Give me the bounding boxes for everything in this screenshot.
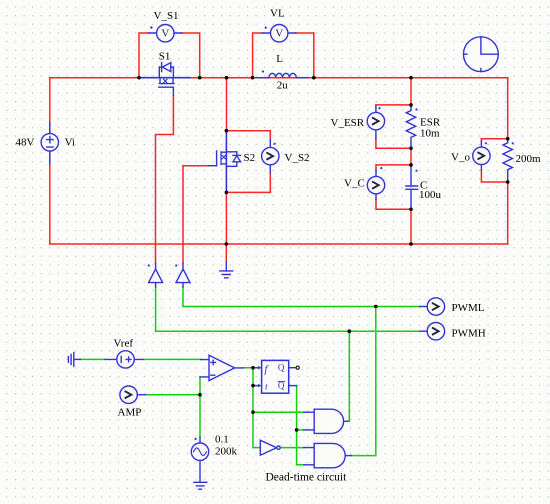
wire Vref to op-amp xyxy=(143,358,201,360)
sine source carrier xyxy=(191,437,208,482)
source Vref xyxy=(105,351,143,368)
svg-text:PWML: PWML xyxy=(452,302,485,314)
wire AND1 output up xyxy=(348,331,350,421)
ground left of Vref xyxy=(68,353,80,367)
voltmeter VL xyxy=(262,25,296,42)
svg-text:0.1: 0.1 xyxy=(215,434,229,446)
node PWMH junction xyxy=(348,329,352,333)
node S2 source junction xyxy=(225,191,229,195)
wire to inverter input xyxy=(253,447,260,449)
svg-text:V: V xyxy=(275,28,283,40)
inductor L xyxy=(257,70,308,77)
AND gate 2 xyxy=(304,443,351,467)
svg-text:S2: S2 xyxy=(244,152,256,164)
ground below sine source xyxy=(194,482,207,489)
node V_S1 right junction xyxy=(198,76,202,80)
node comparator output junction xyxy=(251,366,255,370)
capacitor C xyxy=(406,165,418,209)
node S2 top rail junction xyxy=(225,76,229,80)
resistor 200m load xyxy=(503,139,514,182)
AND gate 1 xyxy=(304,409,348,433)
probe PWMH xyxy=(420,323,445,340)
wire to AND1 top input xyxy=(253,411,304,413)
probe PWML xyxy=(420,298,445,315)
node flipflop clock junction xyxy=(251,384,255,388)
resistor ESR xyxy=(406,106,417,148)
node S2 drain junction xyxy=(225,129,229,133)
op-amp comparator xyxy=(200,355,244,380)
wire right rail lower xyxy=(507,182,509,244)
wire C bottom link xyxy=(410,209,412,245)
wire VL left branch xyxy=(253,33,263,78)
gate driver triangle S1 side xyxy=(148,263,163,287)
svg-text:10m: 10m xyxy=(420,128,440,140)
node C branch bottom rail junction xyxy=(409,242,413,246)
svg-text:V: V xyxy=(161,28,169,40)
node VL left junction xyxy=(251,76,255,80)
transistor S2 xyxy=(209,131,241,193)
node PWML junction xyxy=(374,305,378,309)
flip-flop U1 xyxy=(255,360,297,393)
wire right rail upper xyxy=(507,78,509,139)
svg-text:t: t xyxy=(265,382,268,392)
ground below S2 xyxy=(220,262,233,278)
open terminal on Q output xyxy=(296,366,299,369)
wire bottom rail xyxy=(50,243,508,245)
inverter xyxy=(260,440,280,455)
wire ground stem red part xyxy=(225,244,227,262)
wire ESR top link xyxy=(410,78,412,106)
svg-text:Vi: Vi xyxy=(65,137,75,149)
node load bottom junction xyxy=(506,180,510,184)
voltmeter V_S1 xyxy=(148,25,181,42)
svg-text:S1: S1 xyxy=(159,51,171,63)
svg-text:200k: 200k xyxy=(215,446,238,458)
svg-text:Q: Q xyxy=(278,363,285,373)
probe V_C xyxy=(367,167,384,200)
probe V_S2 xyxy=(262,140,279,173)
wire comparator output vertical xyxy=(244,368,253,448)
svg-text:AMP: AMP xyxy=(118,407,142,419)
clock symbol xyxy=(464,37,499,72)
node AMP junction xyxy=(198,393,202,397)
node Qbar AND1 junction xyxy=(295,428,299,432)
node ESR bottom junction xyxy=(409,147,413,151)
wire ESR-C link xyxy=(410,148,412,166)
wire PWMH net xyxy=(156,287,420,331)
svg-text:V_ESR: V_ESR xyxy=(331,117,365,129)
node ESR top junction xyxy=(409,103,413,107)
svg-text:100u: 100u xyxy=(419,189,442,201)
node ESR top rail junction xyxy=(409,76,413,80)
node VL right junction xyxy=(312,76,316,80)
svg-text:Vref: Vref xyxy=(114,338,134,350)
svg-text:V_S2: V_S2 xyxy=(285,152,310,164)
gate driver triangle S2 side xyxy=(175,263,190,287)
probe V_ESR xyxy=(367,107,384,139)
wire PWML net xyxy=(183,287,420,306)
wire V_C bottom branch xyxy=(376,200,411,210)
svg-text:V_C: V_C xyxy=(344,178,365,190)
wire Qbar vertical xyxy=(296,386,298,465)
wire S2 source drop xyxy=(225,192,227,244)
node AND1 input junction xyxy=(251,410,255,414)
wire V_S1 right branch xyxy=(182,33,200,78)
wire AMP link xyxy=(146,394,200,396)
wire S2 drain link xyxy=(226,78,228,131)
svg-text:L: L xyxy=(276,53,283,65)
wire VL right branch xyxy=(296,33,314,78)
node load top junction xyxy=(506,137,510,141)
wire to AND2 bottom input xyxy=(297,464,304,466)
wire left vertical rail xyxy=(49,78,51,244)
wire V_S1 left branch xyxy=(139,33,148,78)
svg-text:Dead-time circuit: Dead-time circuit xyxy=(266,472,348,484)
wire to flipflop input 1 xyxy=(253,367,257,369)
source Vi 48V xyxy=(41,123,58,164)
wire V_C top branch xyxy=(376,165,411,170)
transistor S1 xyxy=(140,63,191,96)
wire V_ESR top branch xyxy=(376,105,411,107)
wire V_S2 top branch xyxy=(226,131,270,140)
wire V_S2 bottom branch xyxy=(226,173,270,193)
probe V_o xyxy=(473,141,490,170)
wire top rail xyxy=(50,77,508,79)
wire to AND1 bottom input xyxy=(297,429,304,431)
node V_S1 left junction xyxy=(137,76,141,80)
wire V_o bottom branch xyxy=(481,170,507,182)
wire ground to Vref xyxy=(80,358,105,360)
wire to flipflop input 2 xyxy=(253,385,257,387)
node C top junction xyxy=(409,163,413,167)
node C bottom junction xyxy=(409,208,413,212)
svg-text:V_o: V_o xyxy=(451,152,470,164)
probe AMP xyxy=(120,386,146,403)
wire AND2 output up xyxy=(351,307,376,456)
wire op-amp minus vertical to sine xyxy=(199,377,201,437)
wire S2 gate to driver xyxy=(183,166,209,263)
wire V_o top branch xyxy=(481,139,507,142)
wire S1 gate to driver xyxy=(156,95,174,263)
wire V_ESR bottom branch xyxy=(376,139,411,148)
svg-text:VL: VL xyxy=(270,8,285,20)
svg-text:2u: 2u xyxy=(277,80,289,92)
node ground junction bottom rail xyxy=(225,242,229,246)
wire inverter output xyxy=(280,447,304,449)
svg-text:200m: 200m xyxy=(516,153,542,165)
svg-text:V_S1: V_S1 xyxy=(154,10,179,22)
svg-text:48V: 48V xyxy=(16,137,35,149)
svg-text:PWMH: PWMH xyxy=(452,328,486,340)
